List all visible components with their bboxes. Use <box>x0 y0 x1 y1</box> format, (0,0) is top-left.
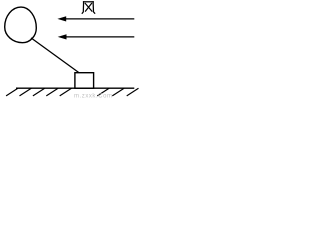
svg-text:m.zxxk.Com: m.zxxk.Com <box>74 93 113 99</box>
